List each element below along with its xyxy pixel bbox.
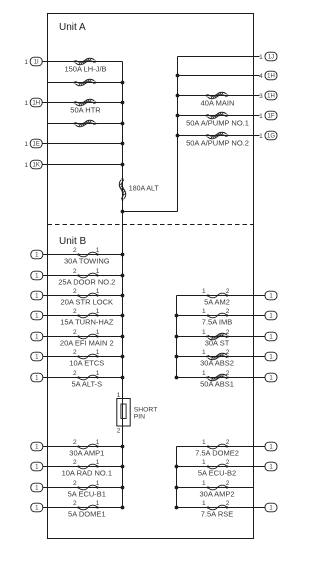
connector 1(1I)	[24, 57, 42, 66]
junction: Unit B right bus / 5A ECU-B2 row	[175, 465, 179, 469]
svg-text:1: 1	[259, 133, 263, 140]
connector 1 (30A ABS2 row)	[265, 352, 277, 361]
wire: Unit A right vertical bus	[177, 57, 179, 212]
fuse 25A DOOR NO.2	[77, 273, 98, 278]
wire: Unit A left row y=82.5	[48, 82, 123, 84]
fuse 30A TOWING	[77, 252, 98, 257]
wire: Unit B right row 7.5A RSE	[177, 507, 266, 509]
junction: Unit A right bus / row 2	[176, 74, 180, 78]
svg-text:50A A/PUMP NO.2: 50A A/PUMP NO.2	[186, 138, 249, 147]
wire: Unit B left row 5A ALT-S	[43, 377, 123, 379]
svg-text:50A A/PUMP NO.1: 50A A/PUMP NO.1	[186, 118, 249, 127]
fuse 20A STR LOCK	[77, 293, 98, 298]
svg-text:7.5A DOME2: 7.5A DOME2	[195, 449, 239, 458]
svg-text:2: 2	[73, 247, 77, 254]
junction: main bus / Unit A row 3	[121, 101, 125, 105]
junction: Unit B right bus / 7.5A IMB row	[175, 314, 179, 318]
svg-text:1: 1	[96, 500, 100, 507]
fusible link 150A LH-J/B	[74, 58, 97, 65]
connector 1 (7.5A DOME2 row)	[265, 442, 277, 451]
svg-text:1: 1	[96, 459, 100, 466]
connector 1 (20A STR LOCK row)	[31, 291, 43, 300]
connector 1 (5A ECU-B1 row)	[31, 483, 43, 492]
svg-text:10A ETCS: 10A ETCS	[69, 359, 104, 368]
svg-text:Unit A: Unit A	[59, 22, 86, 33]
fusible link 30A ABS2	[206, 353, 229, 360]
svg-text:2: 2	[73, 370, 77, 377]
junction: main bus / 10A ETCS row	[121, 355, 125, 359]
wire: Unit B left row 30A AMP1	[43, 446, 123, 448]
connector 1 (7.5A RSE row)	[265, 503, 277, 512]
svg-text:30A ABS2: 30A ABS2	[200, 359, 234, 368]
svg-text:1G: 1G	[267, 134, 275, 140]
svg-text:1: 1	[202, 329, 206, 336]
svg-text:1H: 1H	[32, 101, 40, 107]
connector 1(1E)	[24, 139, 42, 148]
connector 1(1K)	[24, 160, 42, 169]
svg-text:2: 2	[73, 268, 77, 275]
fusible link fusible link	[74, 120, 97, 127]
svg-text:1: 1	[259, 113, 263, 120]
svg-text:1: 1	[96, 439, 100, 446]
fuse 7.5A RSE	[207, 505, 228, 510]
svg-text:1: 1	[96, 247, 100, 254]
svg-text:30A AMP1: 30A AMP1	[69, 449, 104, 458]
connector 1(1F)	[259, 111, 277, 120]
wire: Unit B left row 5A DOME1	[43, 507, 123, 509]
junction: main bus / 15A TURN-HAZ row	[121, 314, 125, 318]
fuse 5A ECU-B2	[207, 464, 228, 469]
connector 1 (20A EFI MAIN 2 row)	[31, 332, 43, 341]
connector 1 (5A ALT-S row)	[31, 373, 43, 382]
wire: Unit B right row 30A AMP2	[177, 487, 254, 489]
wire: Unit A left row y=123.5	[48, 123, 123, 125]
svg-text:1: 1	[24, 100, 28, 107]
junction: main bus / Unit A row 5	[121, 142, 125, 146]
svg-text:30A TOWING: 30A TOWING	[64, 257, 110, 266]
svg-text:1: 1	[202, 439, 206, 446]
wire: Unit B left row 30A TOWING	[43, 254, 123, 256]
connector 1 (30A ST row)	[265, 332, 277, 341]
svg-text:2: 2	[73, 349, 77, 356]
fuse 5A AM2	[207, 293, 228, 298]
wire: Unit B left row 15A TURN-HAZ	[43, 315, 123, 317]
wire: Unit B right row 7.5A IMB	[177, 315, 266, 317]
svg-text:2: 2	[73, 288, 77, 295]
wire: Unit A right row y=75.5	[178, 75, 260, 77]
fuse 10A RAD NO.1	[77, 464, 98, 469]
junction: main bus / 10A RAD NO.1 row	[121, 465, 125, 469]
svg-text:1: 1	[202, 500, 206, 507]
svg-text:40A MAIN: 40A MAIN	[201, 98, 235, 107]
junction: main bus / 5A ALT-S row	[121, 376, 125, 380]
connector 1 (5A DOME1 row)	[31, 503, 43, 512]
svg-text:7.5A IMB: 7.5A IMB	[202, 318, 232, 327]
fuse 10A ETCS	[77, 354, 98, 359]
svg-text:1: 1	[202, 459, 206, 466]
svg-text:2: 2	[226, 349, 230, 356]
wire: Unit A left row y=102.5	[42, 102, 123, 104]
junction: Unit B right bus / 30A ABS2 row	[175, 355, 179, 359]
wire: Unit B left row 20A STR LOCK	[43, 295, 123, 297]
connector 1 (7.5A IMB row)	[265, 311, 277, 320]
connector 1 (10A ETCS row)	[31, 352, 43, 361]
Unit A / Unit B boundary (dashed)	[48, 224, 254, 226]
svg-text:1: 1	[202, 370, 206, 377]
fuse 30A AMP1	[77, 444, 98, 449]
connector 1 (5A AM2 row)	[265, 291, 277, 300]
wire: Unit B left row 5A ECU-B1	[43, 487, 123, 489]
connector 1 (25A DOOR NO.2 row)	[31, 271, 43, 280]
wire: Unit B right row 7.5A DOME2	[177, 446, 266, 448]
svg-text:3: 3	[259, 93, 263, 100]
svg-text:1H: 1H	[267, 94, 275, 100]
svg-text:1: 1	[202, 480, 206, 487]
svg-text:180A ALT: 180A ALT	[129, 186, 160, 193]
junction: Unit B right bus / 7.5A RSE row	[175, 506, 179, 510]
svg-text:2: 2	[226, 308, 230, 315]
svg-text:1E: 1E	[33, 142, 40, 148]
junction: Unit A right bus / row 4	[176, 114, 180, 118]
wire: Unit B right row 30A ST	[177, 336, 266, 338]
svg-text:1: 1	[96, 308, 100, 315]
fuse 5A DOME1	[77, 505, 98, 510]
svg-text:2: 2	[73, 329, 77, 336]
svg-text:5A AM2: 5A AM2	[204, 298, 230, 307]
wire: Unit A right row y=115.5	[178, 115, 260, 117]
svg-text:2: 2	[73, 439, 77, 446]
junction: main bus / 5A DOME1 row	[121, 506, 125, 510]
svg-text:1F: 1F	[267, 114, 274, 120]
relay block outer box	[48, 14, 254, 539]
connector 1 (10A RAD NO.1 row)	[31, 462, 43, 471]
connector 4(1H)	[259, 71, 277, 80]
svg-text:50A ABS1: 50A ABS1	[200, 380, 234, 389]
wire: Unit B left row 20A EFI MAIN 2	[43, 336, 123, 338]
wire: Unit B right row 30A ABS2	[177, 356, 266, 358]
wire: Unit B left row 10A RAD NO.1	[43, 466, 123, 468]
fusible link 30A ST	[206, 333, 229, 340]
fuse 5A ALT-S	[77, 375, 98, 380]
connector 1 (5A ECU-B2 row)	[265, 462, 277, 471]
junction: main bus / 30A AMP1 row	[121, 445, 125, 449]
junction: main bus / Unit A row 4	[121, 122, 125, 126]
junction: main bus / Unit A row 6	[121, 163, 125, 167]
fuse 30A AMP2	[207, 485, 228, 490]
svg-text:SHORT: SHORT	[134, 407, 158, 414]
wire: Unit A right row y=135.5	[178, 135, 260, 137]
svg-text:1: 1	[202, 288, 206, 295]
svg-text:1: 1	[24, 59, 28, 66]
svg-text:1: 1	[96, 480, 100, 487]
short pin connector	[117, 399, 130, 427]
svg-text:1I: 1I	[34, 60, 39, 66]
junction: main bus / 25A DOOR NO.2 row	[121, 274, 125, 278]
svg-text:2: 2	[226, 288, 230, 295]
fusible link fusible link	[74, 79, 97, 86]
svg-text:30A AMP2: 30A AMP2	[199, 490, 234, 499]
svg-text:1H: 1H	[267, 74, 275, 80]
svg-text:2: 2	[73, 500, 77, 507]
fusible link 50A A/PUMP NO.2	[206, 132, 229, 139]
connector 1(1G)	[259, 131, 277, 140]
svg-text:5A ALT-S: 5A ALT-S	[71, 380, 102, 389]
fusible link 50A A/PUMP NO.1	[206, 112, 229, 119]
svg-text:1: 1	[96, 329, 100, 336]
svg-text:2: 2	[73, 308, 77, 315]
wire: Unit B right row 5A AM2	[177, 295, 266, 297]
svg-text:1: 1	[24, 162, 28, 169]
connector 1 (30A AMP1 row)	[31, 442, 43, 451]
connector 1 (15A TURN-HAZ row)	[31, 311, 43, 320]
junction: Unit B right bus / 50A ABS1 row	[175, 376, 179, 380]
svg-text:1: 1	[96, 268, 100, 275]
svg-text:1: 1	[96, 370, 100, 377]
fusible link 40A MAIN	[206, 92, 229, 99]
junction: bus tie / main bus	[121, 210, 125, 214]
svg-text:Unit B: Unit B	[59, 236, 87, 247]
junction: main bus / 30A TOWING row	[121, 253, 125, 257]
wire: Unit B right bus (lower group)	[176, 447, 178, 508]
svg-text:4: 4	[259, 73, 263, 80]
fusible link 180A ALT	[119, 178, 126, 201]
junction: Unit A right bus / row 5	[176, 134, 180, 138]
svg-text:2: 2	[226, 439, 230, 446]
junction: main bus / 20A EFI MAIN 2 row	[121, 335, 125, 339]
wire: Unit B right bus (upper group)	[176, 296, 178, 378]
fusible link 50A ABS1	[206, 374, 229, 381]
svg-text:1: 1	[117, 392, 121, 399]
svg-text:2: 2	[226, 480, 230, 487]
svg-text:25A DOOR NO.2: 25A DOOR NO.2	[58, 278, 115, 287]
junction: main bus / Unit A row 2	[121, 81, 125, 85]
fuse 20A EFI MAIN 2	[77, 334, 98, 339]
svg-text:1: 1	[202, 308, 206, 315]
fuse 7.5A IMB	[207, 313, 228, 318]
wire: Unit A left row y=143.5	[42, 143, 123, 145]
svg-text:2: 2	[226, 329, 230, 336]
wire: main vertical bus (left)	[122, 62, 124, 508]
svg-text:2: 2	[226, 500, 230, 507]
connector 1(1H)	[24, 98, 42, 107]
svg-text:2: 2	[226, 370, 230, 377]
connector 1(1J)	[259, 52, 277, 61]
wire: Unit A left row y=164.5	[42, 164, 123, 166]
svg-text:1: 1	[259, 54, 263, 61]
svg-text:20A EFI MAIN 2: 20A EFI MAIN 2	[60, 339, 114, 348]
svg-text:5A ECU-B2: 5A ECU-B2	[198, 469, 236, 478]
wire: Unit B right row 50A ABS1	[177, 377, 266, 379]
svg-text:5A DOME1: 5A DOME1	[68, 510, 106, 519]
svg-text:15A TURN-HAZ: 15A TURN-HAZ	[60, 318, 114, 327]
fuse 7.5A DOME2	[207, 444, 228, 449]
junction: Unit B right bus / 30A ST row	[175, 335, 179, 339]
svg-text:1: 1	[24, 141, 28, 148]
svg-text:1: 1	[96, 349, 100, 356]
junction: main bus / 5A ECU-B1 row	[121, 486, 125, 490]
connector 1 (30A TOWING row)	[31, 250, 43, 259]
svg-text:PIN: PIN	[134, 414, 145, 421]
svg-text:1J: 1J	[268, 55, 274, 61]
connector 1 (50A ABS1 row)	[265, 373, 277, 382]
wire: Unit B left row 25A DOOR NO.2	[43, 275, 123, 277]
svg-text:1: 1	[202, 349, 206, 356]
wire: bus tie at bottom of Unit A	[123, 211, 178, 213]
wire: Unit B left row 10A ETCS	[43, 356, 123, 358]
wire: Unit A right row y=95.5	[178, 95, 260, 97]
svg-text:2: 2	[117, 428, 121, 435]
wire: Unit A left row y=61.5	[42, 61, 123, 63]
svg-text:2: 2	[73, 459, 77, 466]
svg-text:2: 2	[73, 480, 77, 487]
svg-text:5A ECU-B1: 5A ECU-B1	[68, 490, 106, 499]
svg-text:2: 2	[226, 459, 230, 466]
junction: Unit B right bus / 30A AMP2 row	[175, 486, 179, 490]
fuse 5A ECU-B1	[77, 485, 98, 490]
svg-text:20A STR LOCK: 20A STR LOCK	[61, 298, 114, 307]
svg-text:10A RAD NO.1: 10A RAD NO.1	[62, 469, 112, 478]
svg-text:150A LH-J/B: 150A LH-J/B	[64, 64, 106, 73]
svg-text:30A ST: 30A ST	[205, 339, 230, 348]
connector 3(1H)	[259, 91, 277, 100]
svg-text:50A HTR: 50A HTR	[70, 105, 101, 114]
fuse 15A TURN-HAZ	[77, 313, 98, 318]
wire: Unit B right row 5A ECU-B2	[177, 466, 266, 468]
svg-text:1: 1	[96, 288, 100, 295]
wire: Unit A right row y=56.5	[178, 56, 260, 58]
fusible link 50A HTR	[74, 99, 97, 106]
svg-text:1K: 1K	[33, 163, 40, 169]
junction: Unit A right bus / row 3	[176, 94, 180, 98]
svg-text:7.5A RSE: 7.5A RSE	[201, 510, 234, 519]
junction: main bus / 20A STR LOCK row	[121, 294, 125, 298]
